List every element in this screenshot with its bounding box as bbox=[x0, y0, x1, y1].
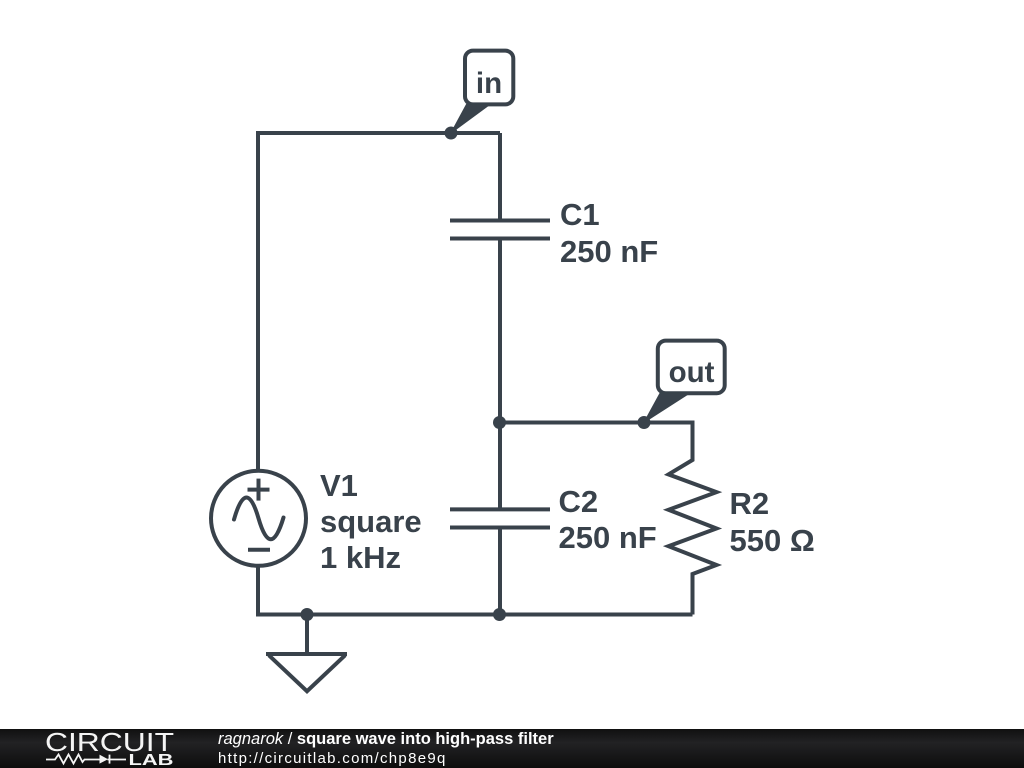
svg-text:LAB: LAB bbox=[129, 752, 174, 768]
svg-text:in: in bbox=[476, 67, 502, 100]
svg-text:C2: C2 bbox=[559, 484, 599, 519]
svg-text:C1: C1 bbox=[560, 197, 600, 232]
svg-text:V1: V1 bbox=[320, 468, 358, 503]
svg-text:550 Ω: 550 Ω bbox=[730, 523, 815, 558]
svg-text:ragnarok / square wave into hi: ragnarok / square wave into high-pass fi… bbox=[218, 730, 554, 748]
svg-text:R2: R2 bbox=[730, 486, 770, 521]
svg-text:out: out bbox=[669, 356, 715, 389]
svg-text:square: square bbox=[320, 504, 422, 539]
svg-text:http://circuitlab.com/chp8e9q: http://circuitlab.com/chp8e9q bbox=[218, 750, 447, 767]
svg-text:250 nF: 250 nF bbox=[560, 234, 658, 269]
svg-text:1 kHz: 1 kHz bbox=[320, 540, 401, 575]
svg-text:250 nF: 250 nF bbox=[559, 520, 657, 555]
